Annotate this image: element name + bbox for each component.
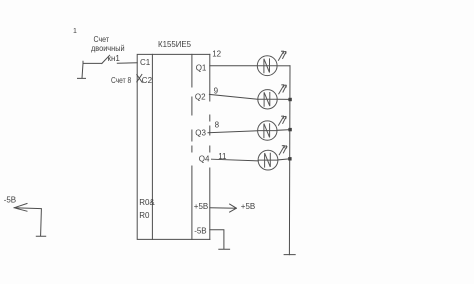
svg-text:К155ИЕ5: К155ИЕ5 (158, 40, 192, 49)
svg-text:Q3: Q3 (195, 128, 206, 137)
svg-text:+5В: +5В (194, 202, 208, 211)
svg-text:12: 12 (212, 50, 221, 59)
svg-text:8: 8 (215, 121, 220, 130)
svg-text:R0&: R0& (139, 198, 155, 207)
svg-text:Счет 8: Счет 8 (111, 76, 132, 85)
svg-text:-5В: -5В (4, 195, 16, 204)
svg-text:Q4: Q4 (199, 154, 210, 163)
svg-text:11: 11 (218, 152, 227, 161)
svg-text:R0: R0 (139, 211, 150, 220)
svg-text:С2: С2 (142, 76, 153, 85)
svg-text:-5В: -5В (194, 226, 206, 235)
svg-text:C1: C1 (140, 58, 151, 67)
svg-text:1: 1 (73, 28, 77, 35)
svg-text:двоичный: двоичный (91, 44, 125, 53)
svg-text:9: 9 (214, 86, 219, 95)
svg-text:Q2: Q2 (195, 93, 206, 102)
svg-text:Q1: Q1 (196, 64, 207, 73)
svg-text:Счет: Счет (94, 35, 110, 44)
svg-text:кн1: кн1 (108, 54, 121, 63)
svg-text:+5В: +5В (241, 202, 255, 211)
